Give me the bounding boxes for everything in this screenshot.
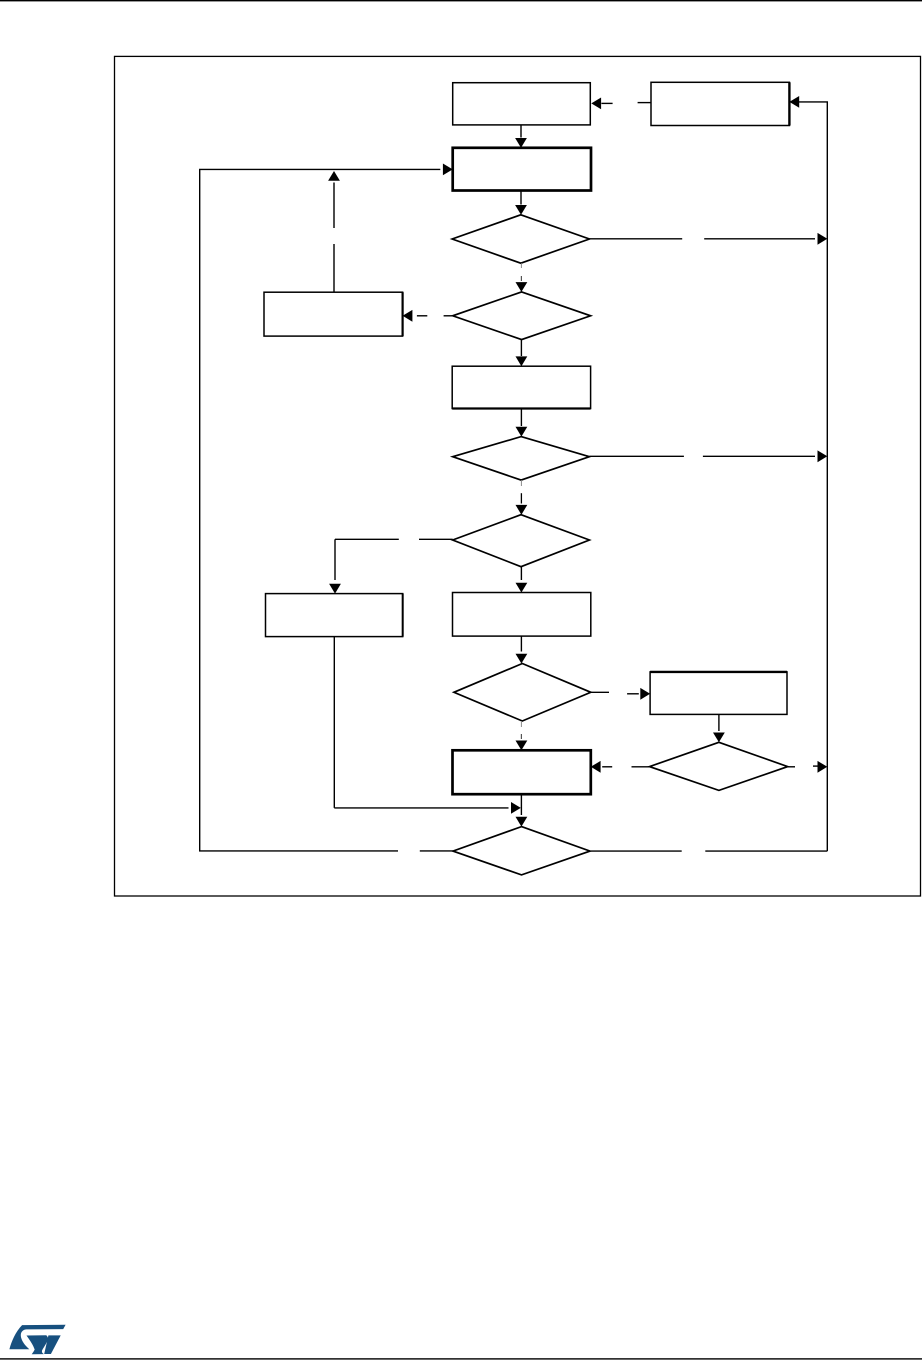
wire box F to decision D5 [520,636,522,651]
wire segment left of K [638,102,651,104]
decision D4 [453,515,590,567]
wire box I down to decision J [520,794,522,815]
left feedback vertical wire [199,169,201,851]
wire D5 to box I [520,721,522,727]
wire D4 to left drop [335,538,399,540]
wire D2 to box C [444,315,453,317]
wire box C up to feedback line [333,244,335,292]
right vertical bus wire [826,102,828,851]
box B (bold process) [453,148,591,191]
wire D2 to box D [520,340,522,356]
box I (bold process) [453,750,591,794]
box K (top right process) [651,82,789,125]
wire D1 to right vertical [589,238,682,240]
wire D5 to box G [591,691,609,693]
box C (left process) [264,292,403,336]
box E right bold edge [402,594,404,637]
decision D1 [452,215,589,263]
wire H to right vertical [788,766,795,768]
left feedback horizontal wire into B [199,168,440,170]
wire D3 to D4 [520,480,522,486]
wire B to decision D1 [520,191,522,205]
wire into K from right vertical [789,96,799,108]
box A (top center process) [453,83,591,125]
decision D5 [454,664,591,722]
decision D3 [453,437,590,481]
wire J to left feedback [199,850,398,852]
wire A to B [520,125,522,138]
wire box E down and right to junction [333,637,335,808]
wire H to box I [632,766,650,768]
top header rule [0,0,922,1]
box G (right process) [650,672,787,715]
box G top bold edge [650,671,787,673]
decision D2 [453,292,591,340]
wire D3 to right vertical [589,455,684,457]
box K right bold edge [788,82,790,125]
decision J (bottom) [453,827,590,875]
box C right bold edge [402,292,404,336]
decision H (right) [650,742,788,790]
wire box G to decision H [718,714,720,731]
wire drop into box E [334,539,336,580]
box F (center process) [453,593,591,637]
ST logo [9,1325,65,1355]
wire D4 to box F [520,567,522,580]
box D (center process) [452,366,590,408]
wire D1 to D2 [520,263,522,268]
box D bottom bold edge [452,407,590,409]
wire into A from right [591,98,601,110]
bottom footer rule [0,1358,922,1359]
wire J to right vertical [591,850,682,852]
box E (left process) [266,594,403,637]
outer figure frame [115,56,921,896]
wire box D to decision D3 [520,409,522,427]
